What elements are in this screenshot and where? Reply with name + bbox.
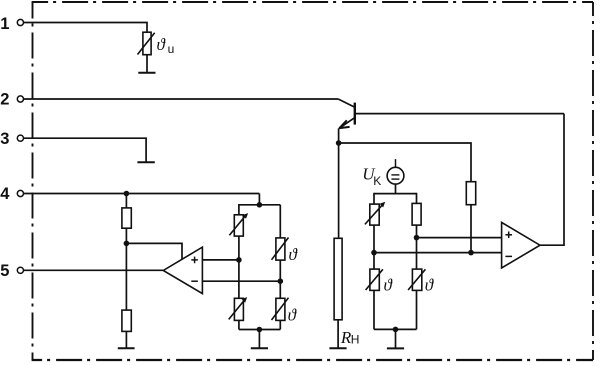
wire terminal4 rail into sub-bridge [258, 194, 260, 205]
sub-bridge bottom bar [239, 329, 280, 331]
resistor R4 (divider lower) [122, 310, 131, 331]
svg-text:ϑ: ϑ [288, 306, 298, 325]
svg-text:K: K [373, 174, 381, 188]
border frame dash-dot top [32, 1, 593, 3]
wire sub-bridge bottom to ground [258, 330, 260, 348]
wire U1 plus input [202, 259, 239, 261]
junction dot R1/minus [468, 250, 474, 256]
wire VR3 to plus node [238, 236, 240, 260]
svg-text:ϑ: ϑ [157, 35, 167, 54]
junction dot sub-bridge left / plus [236, 257, 242, 263]
wire R1 to minus line [470, 205, 472, 253]
wire plus line to opamp U2 [417, 237, 502, 239]
wire to VR3 [238, 204, 240, 215]
op-amp U2 [502, 222, 540, 268]
svg-text:H: H [351, 332, 360, 346]
voltage source UK [387, 159, 404, 184]
junction dot bridge bottom [393, 327, 399, 333]
wire to R2 [416, 193, 418, 204]
ground (terminal 3) [137, 161, 154, 163]
wire TH5 to bottom bar [279, 320, 281, 329]
wire UK to bridge top bar [395, 184, 397, 194]
resistor R2 (bridge upper right) [412, 203, 421, 225]
junction dot sub-bridge bottom [257, 327, 263, 333]
terminal 3 circle [17, 135, 23, 141]
ground (sub-bridge) [251, 347, 268, 349]
svg-text:5: 5 [0, 262, 9, 280]
ground (bridge) [387, 347, 404, 349]
wire TH2 to bottom bar [373, 290, 375, 329]
wire right branch to TH4 [279, 205, 281, 238]
svg-text:2: 2 [0, 90, 9, 108]
ground (divider) [118, 347, 135, 349]
variable resistor VR4 (sub-bridge lower left) [229, 297, 248, 320]
terminal 1 circle [17, 19, 23, 25]
bridge bottom bar [374, 328, 417, 330]
wire to TH3 [416, 238, 418, 270]
wire R4 to ground [125, 331, 127, 347]
junction dot bridge left / minus [371, 250, 377, 256]
op-amp U1 (mirrored) [163, 247, 202, 294]
wire U1 minus input [202, 280, 280, 282]
left divider: wire from terminal4 rail [125, 194, 127, 208]
wire to VR2 [373, 193, 375, 204]
wire VR2 to minus node [373, 225, 375, 253]
wire terminal3 to ground [24, 138, 146, 161]
ground (under theta-u) [138, 72, 155, 74]
resistor R3 (divider upper) [122, 208, 131, 228]
border frame dash-dot bottom [32, 359, 593, 361]
svg-text:4: 4 [0, 185, 10, 203]
wire R3 to divider node [125, 228, 127, 243]
junction dot divider top [124, 191, 130, 197]
thermistor R-theta-u [138, 32, 155, 55]
ground (RH) [329, 347, 346, 349]
bridge top bar [374, 193, 417, 195]
sub-bridge top bar [239, 204, 280, 206]
svg-text:u: u [168, 42, 175, 56]
wire to TH2 [373, 253, 375, 270]
terminal 4 circle [17, 190, 23, 196]
resistor R1 (feedback) [466, 182, 475, 205]
wire terminal2 to transistor base [24, 98, 338, 100]
wire node A to feedback resistor [339, 143, 471, 182]
thermistor TH2 (bridge lower left) [366, 269, 383, 290]
wire left branch down [238, 260, 240, 298]
border frame dash-dot right [592, 2, 594, 360]
svg-text:ϑ: ϑ [383, 276, 393, 295]
wire divider node down [125, 243, 127, 310]
wire Q1 emitter down to node A [338, 128, 340, 143]
variable resistor VR2 (bridge upper left) [365, 202, 385, 225]
wire TH3 to bottom bar [416, 290, 418, 329]
wire node A down to RH [338, 143, 340, 238]
wire bridge bottom to ground [395, 329, 397, 348]
wire divider node to opamp U1 top [126, 243, 182, 259]
thermistor TH3 (bridge lower right) [408, 269, 425, 290]
wire thermistor to ground [146, 55, 148, 73]
wire right branch down [279, 281, 281, 298]
thermistor TH4 (sub-bridge upper right) [272, 238, 289, 261]
wire terminal1 to thermistor [24, 23, 147, 33]
border frame dash-dot left [32, 2, 34, 360]
wire U2 output loop [540, 114, 564, 246]
junction dot sub-bridge right / minus [278, 278, 284, 284]
node A junction dot [336, 140, 342, 146]
variable resistor VR3 (sub-bridge upper left) [229, 213, 248, 236]
junction dot bridge right / plus [414, 235, 420, 241]
wire RH to ground [337, 320, 339, 348]
junction dot sub-bridge top [257, 202, 263, 208]
wire terminal4 rail [24, 193, 260, 195]
resistor RH [334, 238, 342, 319]
thermistor TH5 (sub-bridge lower right) [272, 298, 289, 321]
wire VR4 to bottom bar [238, 320, 240, 329]
wire Q1 collector [355, 113, 564, 115]
wire minus line to opamp U2 [374, 252, 502, 254]
svg-text:ϑ: ϑ [425, 276, 435, 295]
terminal 5 circle [17, 267, 23, 273]
terminal 2 circle [17, 96, 23, 102]
svg-text:3: 3 [0, 130, 9, 148]
junction dot divider mid [124, 241, 130, 247]
transistor Q1 [338, 99, 355, 128]
wire R2 to plus node [416, 225, 418, 238]
wire TH4 to minus node [279, 260, 281, 281]
wire opamp U1 output to terminal 5 [24, 269, 164, 271]
svg-text:ϑ: ϑ [289, 245, 299, 264]
svg-text:1: 1 [0, 15, 9, 33]
